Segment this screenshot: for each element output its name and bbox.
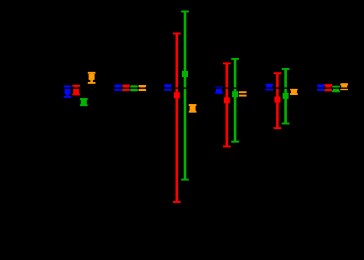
errorbar g2 red: vertical line bbox=[125, 86, 128, 90]
errorbar g2 orange: bottom cap bbox=[138, 89, 146, 91]
errorbar g2 red: top cap bbox=[122, 85, 130, 87]
errorbar g2 green: top cap bbox=[130, 86, 138, 88]
errorbar g3 blue: square marker bbox=[165, 85, 171, 91]
errorbar g4 blue: vertical line bbox=[218, 88, 221, 93]
errorbar g6 red: vertical line bbox=[327, 85, 330, 90]
errorbar g4 green: square marker bbox=[232, 91, 238, 97]
errorbar g5 orange: square marker bbox=[291, 89, 297, 95]
errorbar g2 blue: bottom cap bbox=[114, 89, 122, 91]
errorbar g6 blue: vertical line bbox=[320, 85, 323, 90]
errorbar g6 orange: vertical line bbox=[343, 84, 346, 89]
errorbar g3 blue: top cap bbox=[164, 84, 172, 86]
errorbar g2 green: square marker bbox=[131, 85, 137, 91]
errorbar g5 green: bottom cap bbox=[282, 123, 290, 125]
errorbar g5 green: vertical line bbox=[284, 69, 287, 124]
errorbar g5 green: square marker bbox=[283, 93, 289, 99]
errorbar g1 green: top cap bbox=[80, 98, 88, 100]
errorbar g3 green: vertical line bbox=[184, 12, 187, 180]
errorbar g1 red: top cap bbox=[72, 85, 80, 87]
errorbar g2 orange: top cap bbox=[138, 85, 146, 87]
errorbar g4 red: vertical line bbox=[226, 63, 229, 146]
errorbar g5 orange: bottom cap bbox=[290, 93, 298, 95]
errorbar g2 orange: vertical line bbox=[141, 86, 144, 90]
errorbar g6 orange: bottom cap bbox=[340, 88, 348, 90]
errorbar g6 red: top cap bbox=[325, 84, 333, 86]
zero reference line (black, drawn over the error bars) bbox=[0, 87, 364, 88]
errorbar g1 blue: vertical line bbox=[66, 86, 69, 97]
errorbar g6 red: bottom cap bbox=[325, 89, 333, 91]
errorbar g1 green: square marker bbox=[81, 99, 87, 105]
errorbar g6 orange: top cap bbox=[340, 83, 348, 85]
errorbar g6 green: vertical line bbox=[335, 87, 338, 92]
errorbar g3 blue: bottom cap bbox=[164, 89, 172, 91]
errorbar g3 red: square marker bbox=[174, 92, 180, 98]
errorbar g2 blue: square marker bbox=[115, 85, 121, 91]
errorbar g2 blue: vertical line bbox=[117, 86, 120, 90]
errorbar g4 blue: bottom cap bbox=[215, 92, 223, 94]
errorbar g6 red: square marker bbox=[325, 85, 331, 91]
errorbar g1 red: vertical line bbox=[75, 86, 78, 95]
errorbar g1 blue: square marker bbox=[65, 88, 71, 94]
errorbar g1 green: vertical line bbox=[83, 99, 86, 105]
errorbar g6 blue: top cap bbox=[317, 84, 325, 86]
errorbar g4 blue: square marker bbox=[216, 87, 222, 93]
errorbar g6 blue: square marker bbox=[318, 85, 324, 91]
errorbar g1 orange: square marker bbox=[89, 74, 95, 80]
errorbar g5 blue: top cap bbox=[265, 84, 273, 86]
errorbar g3 green: square marker bbox=[182, 71, 188, 77]
errorbar g4 green: vertical line bbox=[234, 59, 237, 142]
errorbar g3 red: vertical line bbox=[176, 34, 179, 203]
errorbar g1 orange: vertical line bbox=[90, 73, 93, 83]
errorbar g5 blue: vertical line bbox=[268, 85, 271, 90]
errorbar g3 orange: top cap bbox=[189, 104, 197, 106]
errorbar g6 green: top cap bbox=[332, 86, 340, 88]
errorbar g4 red: top cap bbox=[223, 62, 231, 64]
errorbar g1 red: square marker bbox=[73, 87, 79, 93]
errorbar g1 orange: bottom cap bbox=[88, 82, 96, 84]
errorbar g5 orange: vertical line bbox=[293, 89, 296, 94]
errorbar g1 orange: top cap bbox=[88, 72, 96, 74]
errorbar g1 red: bottom cap bbox=[72, 93, 80, 95]
errorbar g6 green: bottom cap bbox=[332, 90, 340, 92]
errorbar g2 green: bottom cap bbox=[130, 89, 138, 91]
errorbar g5 blue: bottom cap bbox=[265, 89, 273, 91]
errorbar g4 green: top cap bbox=[231, 58, 239, 60]
errorbar g6 green: square marker bbox=[333, 86, 339, 92]
errorbar g3 blue: vertical line bbox=[167, 85, 170, 90]
errorbar g5 red: square marker bbox=[274, 97, 280, 103]
errorbar g4 blue: top cap bbox=[215, 87, 223, 89]
errorbar g3 green: top cap bbox=[181, 11, 189, 13]
errorbar g2 green: vertical line bbox=[133, 87, 136, 90]
errorbar g2 blue: top cap bbox=[114, 85, 122, 87]
errorbar g4 red: bottom cap bbox=[223, 146, 231, 148]
errorbar g5 red: vertical line bbox=[276, 73, 279, 128]
errorbar g6 blue: bottom cap bbox=[317, 89, 325, 91]
errorbar g3 orange: square marker bbox=[190, 105, 196, 111]
errorbar g5 orange: top cap bbox=[290, 88, 298, 90]
errorbar g6 orange: square marker bbox=[341, 83, 347, 89]
errorbar g5 red: top cap bbox=[274, 72, 282, 74]
errorbar g4 orange: top cap bbox=[239, 91, 247, 93]
errorbar g5 green: top cap bbox=[282, 68, 290, 70]
errorbar g5 red: bottom cap bbox=[274, 127, 282, 129]
errorbar g1 blue: bottom cap bbox=[64, 96, 72, 98]
errorbar g2 orange: square marker bbox=[139, 85, 145, 91]
errorbar g1 blue: top cap bbox=[64, 85, 72, 87]
errorbar g3 red: bottom cap bbox=[173, 201, 181, 203]
errorbar g1 green: bottom cap bbox=[80, 104, 88, 106]
errorbar g4 orange: bottom cap bbox=[239, 95, 247, 97]
errorbar g4 green: bottom cap bbox=[231, 141, 239, 143]
errorbar g3 red: top cap bbox=[173, 33, 181, 35]
errorbar g3 green: bottom cap bbox=[181, 179, 189, 181]
errorbar g2 red: bottom cap bbox=[122, 89, 130, 91]
errorbar g3 orange: bottom cap bbox=[189, 111, 197, 113]
errorbar g3 orange: vertical line bbox=[191, 105, 194, 112]
errorbar g4 red: square marker bbox=[224, 97, 230, 103]
errorbar g2 red: square marker bbox=[123, 85, 129, 91]
errorbar g5 blue: square marker bbox=[266, 84, 272, 90]
